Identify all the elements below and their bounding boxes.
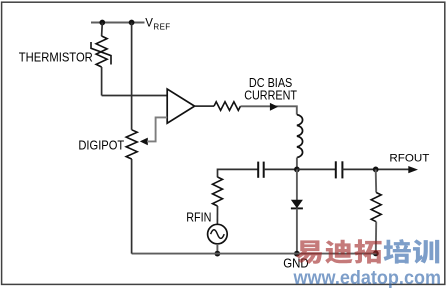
wire to op-amp noninverting input <box>102 95 168 97</box>
digipot wiper arrow <box>140 138 148 146</box>
wire bias node to C2 <box>297 168 336 170</box>
svg-text:THERMISTOR: THERMISTOR <box>19 50 93 64</box>
wire C2 to RFOUT <box>342 168 409 170</box>
watermark character 训 <box>413 239 439 263</box>
inductor L1 <box>297 115 303 158</box>
op-amp U1 <box>167 89 194 123</box>
node GND junction <box>294 251 300 257</box>
watermark character 培 <box>384 239 411 263</box>
wire R3 top lead <box>375 169 378 192</box>
wire op-amp output <box>195 105 214 107</box>
label DC BIAS CURRENT <box>244 76 297 103</box>
wire wiper to op-amp inverting input <box>147 117 167 141</box>
svg-text:RFOUT: RFOUT <box>389 153 429 165</box>
node R3 ground junction <box>373 251 379 257</box>
wire thermistor bottom lead <box>101 67 103 96</box>
resistor R1 (bias series) <box>214 102 241 111</box>
digipot RP1 <box>126 130 137 159</box>
wire RFIN corner to C1 <box>218 169 259 177</box>
node RFOUT/R3 junction <box>373 167 379 173</box>
RFOUT arrow <box>408 166 418 173</box>
svg-text:www.edatop.com: www.edatop.com <box>293 268 441 288</box>
svg-text:RFIN: RFIN <box>186 210 211 225</box>
DC bias current arrow <box>270 103 278 111</box>
wire R3 bottom lead <box>375 222 377 254</box>
wire diode anode lead <box>296 169 298 200</box>
resistor R3 (output shunt) <box>371 193 381 222</box>
svg-text:DIGIPOT: DIGIPOT <box>78 138 124 152</box>
node junction VREF/thermistor <box>99 20 105 26</box>
resistor R2 (RFIN series) <box>213 177 223 206</box>
capacitor C2 <box>336 161 343 178</box>
wire VREF junction to digipot <box>131 23 133 130</box>
watermark character 迪 <box>325 240 352 264</box>
node RFIN ground junction <box>215 251 221 257</box>
wire diode cathode lead <box>296 208 298 253</box>
svg-text:V: V <box>145 17 153 29</box>
wire R2 to source <box>216 206 218 224</box>
wire thermistor top lead <box>101 23 104 37</box>
watermark character 易 <box>296 240 322 263</box>
svg-text:CURRENT: CURRENT <box>244 89 297 103</box>
capacitor C1 <box>258 162 264 178</box>
watermark character 拓 <box>354 239 381 263</box>
wire DC bias to inductor <box>241 106 297 114</box>
AC source RFIN <box>208 224 228 244</box>
wire VREF rail <box>91 22 145 24</box>
node bias/diode junction <box>294 167 300 173</box>
svg-text:REF: REF <box>153 23 170 32</box>
wire inductor to node <box>296 158 298 170</box>
thermistor RT1 <box>91 36 111 67</box>
wire digipot lower lead <box>131 159 133 254</box>
wire C1 to bias node <box>264 168 297 170</box>
wire source to ground rail <box>216 244 218 254</box>
node junction VREF/digipot <box>129 20 135 26</box>
diode D1 <box>291 200 303 209</box>
wire ground rail <box>132 253 377 255</box>
